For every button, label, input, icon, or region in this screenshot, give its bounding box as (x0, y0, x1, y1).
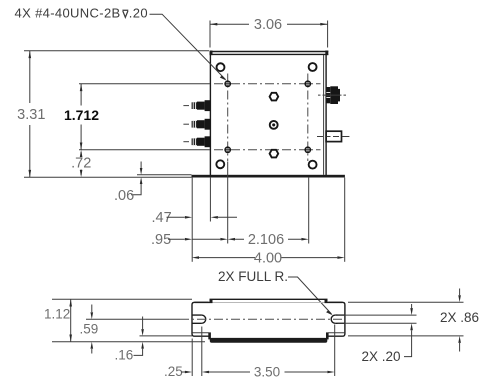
svg-text:.25: .25 (164, 364, 183, 379)
extension line right hole column below (308, 178, 310, 244)
corner hole bottom-left (216, 160, 224, 168)
enclosure left wall (209, 51, 211, 175)
SMA connector right side (318, 86, 346, 104)
wing bottom extension line left (140, 335, 193, 337)
right flange wing outline (328, 302, 345, 336)
case top line side view (195, 301, 213, 303)
mounting flange (base plate) (192, 175, 345, 178)
SMA connector left 1 (183, 100, 210, 111)
svg-text:.95: .95 (151, 232, 171, 248)
corner hole top-right (309, 63, 317, 71)
dim 1.12 top extension (52, 298, 192, 300)
hex standoff top (270, 93, 279, 101)
dim 1.712 line (80, 84, 82, 150)
dim 1.712 extension lines (79, 84, 210, 150)
svg-text:2.106: 2.106 (248, 232, 284, 248)
dim 3.31 arrows (29, 51, 32, 58)
dim .72 line and arrows (80, 152, 82, 175)
dim 2.106 (228, 232, 309, 248)
corner hole bottom-right (309, 161, 317, 169)
extension line wing left edge below (191, 339, 193, 377)
svg-text:2X FULL R.: 2X FULL R. (218, 269, 288, 284)
centerline horizontal lower row (214, 149, 321, 151)
SMA connector left 3 (183, 136, 210, 147)
enclosure lid top band (210, 51, 329, 56)
svg-text:2X .20: 2X .20 (362, 349, 401, 364)
tapped hole bottom-right 4-40 (304, 146, 311, 153)
tapped hole bottom-left 4-40 (224, 146, 231, 153)
dim 3.06 arrows (210, 23, 217, 26)
centerline vertical right column (307, 74, 309, 162)
dim .06 upper extension line (137, 174, 192, 176)
centerline horizontal upper row (214, 83, 321, 85)
lid edge band side view (210, 299, 328, 302)
centerline vertical left column (227, 74, 229, 162)
SMA connector left 2 (183, 119, 210, 130)
base plate thick band (210, 338, 327, 343)
dim 3.31 line (29, 51, 31, 177)
extension line flange right below (344, 178, 346, 262)
right wing inner line (328, 332, 344, 334)
svg-text:.59: .59 (80, 321, 99, 336)
dim .06 arrows (140, 162, 142, 169)
extension line slot end below (201, 327, 203, 377)
enclosure right wall outer line (325, 55, 327, 175)
svg-text:1.712: 1.712 (64, 107, 99, 123)
dim 2X .20 extension lines (338, 315, 417, 323)
left step to base (208, 332, 211, 339)
svg-text:3.31: 3.31 (17, 107, 45, 123)
dim 2X .20 arrows (411, 304, 413, 308)
left wing inner line (193, 332, 209, 334)
dim 2X .86 extension lines (348, 302, 464, 336)
leader from 2X FULL R. to slot (288, 277, 332, 314)
dim .59 arrows (91, 305, 93, 313)
dim 2X .20 leader and text (404, 330, 412, 356)
dim .47 (152, 210, 238, 226)
dim 3.31 top extension line (24, 50, 209, 52)
dim .25 (164, 364, 209, 379)
base bottom extension line (24, 176, 192, 178)
svg-text:.72: .72 (71, 155, 91, 171)
pin stub connector right side (317, 131, 349, 141)
svg-text:1.12: 1.12 (44, 307, 70, 322)
svg-text:.06: .06 (114, 188, 134, 204)
svg-text:3.50: 3.50 (254, 364, 280, 379)
dim .06 leader and text (131, 184, 141, 195)
extension line box left below (209, 178, 211, 222)
dim .16 arrows (142, 317, 144, 330)
extension line flange left below (191, 178, 193, 262)
tapped hole top-right 4-40 (304, 80, 311, 87)
leader from note to tapped hole (150, 14, 226, 79)
svg-text:.16: .16 (115, 348, 134, 363)
svg-text:.20: .20 (129, 6, 148, 21)
extension line left hole column below (227, 162, 229, 244)
dim 1.12 bottom extension (52, 341, 205, 343)
dim 3.50 (209, 364, 335, 379)
svg-text:4X #4-40UNC-2B: 4X #4-40UNC-2B (15, 6, 121, 21)
svg-text:3.06: 3.06 (254, 17, 282, 33)
enclosure right wall inner line (323, 55, 325, 175)
svg-text:4.00: 4.00 (254, 250, 282, 266)
tapped hole top-left 4-40 (224, 80, 231, 87)
dim 1.712 arrows (80, 84, 83, 91)
dim 4.00 (192, 250, 345, 266)
dim .95 (151, 232, 228, 248)
left slot full R (192, 315, 206, 323)
side view centerline (86, 318, 180, 320)
hex standoff bottom (270, 150, 279, 158)
right slot full R (331, 315, 345, 323)
dim 1.12 line and arrows (70, 299, 72, 342)
corner hole top-left (217, 63, 225, 71)
center hole with dot (270, 121, 278, 129)
note 4X #4-40UNC-2B depth .20 (15, 6, 148, 21)
left flange wing outline (192, 302, 209, 336)
dim 2X .86 arrows (459, 289, 461, 296)
dim 3.06 line (210, 23, 328, 25)
dim .16 leader and text (134, 349, 143, 356)
right step to base (326, 332, 329, 339)
svg-text:2X .86: 2X .86 (440, 310, 479, 325)
dim 3.06 extension lines (210, 21, 328, 48)
extension line body right below (334, 325, 336, 377)
